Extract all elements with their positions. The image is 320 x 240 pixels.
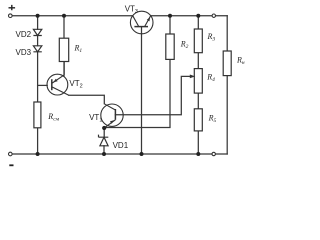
svg-text:Rн: Rн [236,55,245,66]
input terminal - [9,152,13,156]
wire VT1 base to potentiometer wiper [115,76,189,114]
svg-text:R4: R4 [206,73,215,84]
bottom rail [12,153,227,155]
wire VT1 emitter node to VD1 [103,128,105,154]
output terminal top [212,14,215,17]
output terminal bottom [212,152,215,155]
transistor VT1 [101,104,123,128]
zener diode VD1 [99,135,109,146]
arrow potentiometer wiper [190,75,195,79]
wire divider column [197,16,199,154]
svg-text:VD2: VD2 [16,30,32,39]
arrow VT3 emitter [147,17,150,22]
resistor R3 box [194,29,202,53]
transistor VT2 [47,62,69,96]
diode VD3 [33,46,41,52]
svg-text:Rсм: Rсм [47,112,59,123]
svg-text:VT2: VT2 [69,79,82,90]
right side vertical wire [226,16,228,154]
svg-text:R2: R2 [180,40,189,51]
resistor R4 box (potentiometer) [194,69,202,94]
svg-text:R3: R3 [207,32,216,43]
svg-text:R5: R5 [208,114,217,125]
wire VD column [37,16,39,154]
input terminal + [9,14,13,18]
top rail [12,15,227,17]
diode VD2 [33,29,41,35]
resistor Rn box [223,51,231,76]
arrow VT2 [53,79,57,83]
wire VT3 base to bottom rail [141,27,143,154]
svg-text:VD3: VD3 [16,48,32,57]
wire VT2 emitter to VT1 collector [69,95,105,104]
resistor R1 box [59,38,68,61]
wire R1 column [63,16,65,76]
svg-text:VT3: VT3 [125,5,138,16]
resistor R2 box [166,34,174,59]
transistor VT3 [130,11,153,34]
arrow VT1 [110,120,114,124]
plus sign [9,5,16,10]
svg-text:VD1: VD1 [113,141,129,150]
wire VT2 base [38,84,48,86]
resistor R5 box [194,109,202,131]
minus sign [9,164,13,166]
svg-text:R1: R1 [74,44,83,55]
wire R2 column [104,16,170,128]
resistor Rcm box [34,102,41,128]
